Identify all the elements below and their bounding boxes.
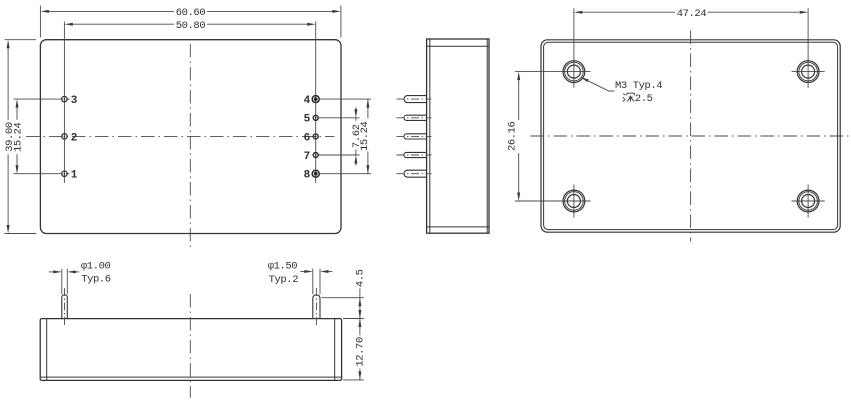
svg-text:2: 2 (71, 132, 78, 144)
pin 2 (62, 132, 78, 144)
svg-text:15.24: 15.24 (359, 121, 371, 151)
side pin row 5 (pin 8) (397, 170, 432, 177)
svg-text:26.16: 26.16 (506, 121, 518, 151)
svg-text:5: 5 (304, 114, 311, 126)
hole bottom-right crosshair h (792, 200, 825, 202)
hole top-right crosshair h (792, 71, 825, 73)
pin 5 (304, 114, 360, 126)
svg-text:50.80: 50.80 (176, 20, 206, 32)
side view inner lip line right (486, 39, 488, 233)
side pin row 1 (pin 4) (397, 96, 432, 103)
svg-text:3: 3 (71, 95, 78, 107)
mounting hole bottom-left (563, 190, 585, 212)
mounting hole top-left (563, 61, 585, 83)
svg-text:8: 8 (304, 170, 311, 182)
svg-text:4: 4 (304, 95, 311, 107)
pin 4 (304, 95, 371, 107)
bottom view pin left (pin 1) (62, 288, 68, 327)
side pin row 2 (pin 5) (397, 115, 432, 120)
back view case outer contour (541, 40, 840, 232)
pin 6 (304, 132, 319, 144)
side view inner lip line left (429, 39, 431, 233)
dimension 60.60 (40, 6, 341, 38)
dimension 39.00 (4, 40, 36, 234)
svg-text:φ1.50: φ1.50 (268, 261, 298, 273)
bottom view pin right (pin 8) (313, 288, 320, 327)
dimension 26.16 (506, 72, 520, 201)
left pin column line (63, 22, 65, 184)
svg-text:1: 1 (71, 170, 78, 182)
svg-text:12.70: 12.70 (355, 337, 367, 367)
dimension 4.5 (322, 269, 367, 318)
dimension dia 1.00 (49, 260, 111, 294)
svg-text:φ1.00: φ1.00 (81, 260, 111, 272)
hole bottom-left crosshair v (573, 184, 575, 217)
horizontal centerline front view (26, 135, 335, 137)
dimension 12.70 (343, 319, 367, 380)
mounting hole top-right (797, 61, 819, 83)
right pin column line (315, 22, 317, 184)
hole top-right crosshair v (807, 8, 809, 88)
svg-text:7: 7 (304, 151, 311, 163)
case body front view (40, 40, 341, 234)
back view horizontal centerline (531, 135, 851, 137)
bottom view inner lip bottom (40, 376, 341, 378)
side view inner lip line bottom (427, 226, 489, 228)
dimension 47.24 (574, 8, 808, 20)
svg-text:4.5: 4.5 (355, 269, 367, 287)
bottom view inner lip right (334, 319, 336, 381)
dimension dia 1.50 (268, 261, 333, 295)
svg-text:2.5: 2.5 (635, 93, 653, 105)
dimension 50.80 (64, 20, 315, 32)
svg-text:M3 Typ.4: M3 Typ.4 (615, 80, 662, 92)
hole bottom-right crosshair v (807, 184, 809, 217)
hole top-left crosshair h (515, 71, 591, 73)
svg-text:6: 6 (304, 132, 311, 144)
pin 1 (14, 170, 78, 182)
svg-text:47.24: 47.24 (677, 8, 707, 20)
side pin row 3 (pin 6) (397, 134, 432, 139)
leader M3 (581, 77, 615, 91)
text depth 2.5 (CJK glyph drawn) (623, 93, 635, 101)
svg-text:Typ.6: Typ.6 (81, 274, 111, 286)
svg-text:15.24: 15.24 (13, 122, 25, 152)
pin 7 (304, 151, 360, 163)
pin 8 (304, 170, 371, 182)
hole bottom-left crosshair h (515, 200, 591, 202)
bottom view vertical centerline (189, 294, 191, 398)
dimension 15.24 right (359, 99, 371, 174)
back view case inner contour (544, 42, 838, 229)
svg-text:60.60: 60.60 (176, 7, 206, 19)
side pin row 4 (pin 7) (397, 152, 432, 157)
svg-text:Typ.2: Typ.2 (269, 274, 299, 286)
dimension 15.24 left (13, 99, 25, 174)
pin 3 (14, 95, 78, 107)
side view inner lip line top (427, 45, 489, 47)
vertical centerline front view (189, 44, 191, 250)
side view case body (427, 39, 489, 233)
bottom view inner lip left (46, 319, 48, 381)
back view vertical centerline (690, 31, 692, 242)
dimension 7.62 right (351, 107, 363, 165)
mounting hole bottom-right (797, 190, 819, 212)
bottom view case body (40, 319, 341, 381)
hole top-left crosshair v (573, 8, 575, 88)
